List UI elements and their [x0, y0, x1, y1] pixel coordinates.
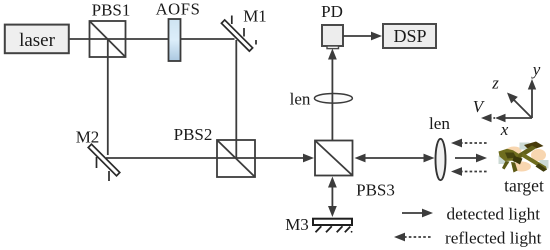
dashed reflected arrow top right of lens — [451, 139, 487, 148]
wire PBS3 to right lens, double arrows — [355, 154, 435, 163]
svg-text:z: z — [491, 74, 499, 93]
solid detected arrow to target — [455, 154, 487, 163]
PD detector — [321, 2, 343, 49]
legend: detected light — [402, 205, 540, 224]
svg-text:len: len — [290, 90, 311, 109]
svg-text:len: len — [429, 114, 450, 133]
mirror M1 — [221, 7, 266, 52]
PBS1 — [90, 1, 131, 58]
svg-text:DSP: DSP — [393, 26, 426, 46]
wire PD to DSP with arrow — [343, 32, 382, 41]
mirror M3 — [285, 215, 352, 234]
svg-text:x: x — [500, 120, 509, 139]
dashed reflected arrow bottom right of lens — [451, 167, 487, 176]
svg-text:detected light: detected light — [447, 205, 541, 224]
svg-text:PBS1: PBS1 — [92, 1, 131, 20]
svg-text:PBS3: PBS3 — [356, 181, 395, 200]
svg-text:reflected light: reflected light — [445, 229, 542, 248]
wire M2 to PBS3 with arrow — [106, 154, 314, 163]
wire M1 down to PBS2 — [235, 40, 237, 158]
svg-text:laser: laser — [19, 30, 56, 51]
wire PBS1 down to M2 — [107, 39, 109, 155]
PBS3 — [315, 141, 395, 200]
wire laser to M1 — [68, 38, 235, 40]
svg-text:target: target — [504, 175, 544, 195]
axis z — [513, 99, 532, 118]
legend: reflected light — [394, 229, 542, 248]
AOFS — [156, 0, 201, 61]
svg-text:PBS2: PBS2 — [174, 125, 213, 144]
PBS2 — [174, 125, 255, 177]
DSP box — [383, 24, 436, 48]
axis x — [504, 117, 532, 119]
target image (camouflage jet) — [499, 142, 549, 196]
coordinate axes — [473, 60, 541, 139]
svg-text:y: y — [531, 60, 541, 79]
axis y — [531, 88, 533, 118]
svg-text:M1: M1 — [243, 7, 267, 26]
wire PBS3 up to PD with arrow — [328, 49, 337, 141]
svg-text:AOFS: AOFS — [156, 0, 201, 19]
svg-text:PD: PD — [321, 2, 343, 21]
wire PBS3 down to M3, double arrow — [328, 177, 337, 218]
velocity V arrow — [490, 117, 496, 119]
svg-text:M2: M2 — [76, 128, 100, 147]
horizontal lens (len) above PBS3 — [290, 90, 353, 109]
mirror M2 — [76, 128, 120, 182]
vertical lens (len) right — [429, 114, 450, 180]
svg-text:M3: M3 — [285, 215, 309, 234]
laser box — [5, 25, 69, 54]
